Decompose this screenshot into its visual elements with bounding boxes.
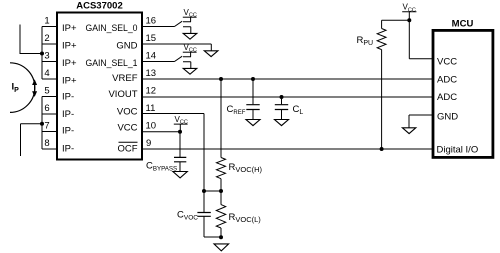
svg-text:ADC: ADC [437,75,457,86]
svg-text:4: 4 [44,68,49,79]
svg-text:ADC: ADC [437,92,457,103]
ground (C_REF) [246,120,260,126]
node VOC divider junction left [202,189,206,193]
switch SW2 upper contact [183,52,191,57]
svg-text:IP-: IP- [62,126,74,137]
wire pin 3 stub [42,61,57,63]
svg-text:9: 9 [146,138,151,149]
svg-text:RPU: RPU [357,35,374,47]
svg-text:12: 12 [146,86,157,97]
wire Vcc to RPU [382,20,410,28]
wire pin 2 stub [42,43,57,45]
wire pin 8 stub [42,148,57,150]
wire pin 6 stub [42,113,57,115]
svg-text:VREF: VREF [112,73,138,84]
svg-text:IP+: IP+ [62,58,77,69]
svg-text:7: 7 [44,121,49,132]
svg-text:CVOC: CVOC [177,210,198,222]
ground (C_L) [275,120,289,126]
svg-text:GAIN_SEL_0: GAIN_SEL_0 [86,23,138,33]
switch SW1 lower contact [183,27,191,33]
wire divider crossbar [204,190,221,192]
ground (MCU) [402,128,415,134]
ground (divider bottom) [214,244,229,251]
op-amp U1 ACS37002 IC body [57,13,142,160]
svg-text:RVOC(L): RVOC(L) [229,212,262,224]
capacitor C_L [275,97,288,119]
node VOC divider junction right [219,189,223,193]
resistor R_PU [377,29,386,150]
current direction arrow [32,79,37,97]
svg-text:Digital I/O: Digital I/O [437,145,479,156]
resistor R_VOC(H) [217,79,226,191]
svg-text:IP+: IP+ [62,76,77,87]
node VREF/RVOC junction [219,77,223,81]
wire pin 15 GND [142,44,211,51]
node VIOUT/CL junction [280,95,284,99]
svg-text:VCC: VCC [437,57,457,68]
power Vcc (pin10) [174,124,188,132]
switch SW1 lever [175,21,183,26]
ground (pin16 switch) [183,33,197,39]
wire external IP- lead [21,124,43,156]
svg-text:IP-: IP- [62,92,74,103]
node IP+ junction [40,52,44,56]
wire IP- bus (pins 5-8) [41,97,43,150]
node Vcc junction [407,18,411,22]
svg-text:3: 3 [44,51,49,62]
node divider bottom junction [219,235,223,239]
svg-text:ACS37002: ACS37002 [76,1,122,12]
svg-text:RVOC(H): RVOC(H) [229,162,263,174]
wire pin 14 GAIN_SEL_1 [142,61,175,63]
svg-text:14: 14 [146,51,157,62]
svg-text:16: 16 [146,16,157,27]
svg-text:VCC: VCC [117,123,137,134]
svg-text:11: 11 [146,103,156,114]
wire MCU GND [409,115,432,128]
svg-text:13: 13 [146,68,157,79]
wire VOC net (pin11) [142,114,204,192]
capacitor C_VOC [197,191,221,237]
svg-text:VOC: VOC [117,107,138,118]
wire pin 5 stub [42,96,57,98]
power Vcc (top right) [402,12,416,21]
wire OCF net (pin9 to MCU Digital I/O) [142,148,432,150]
svg-text:GAIN_SEL_1: GAIN_SEL_1 [86,58,138,68]
wire pin 1 stub [42,26,57,28]
svg-text:CREF: CREF [227,104,246,116]
svg-text:VIOUT: VIOUT [108,89,137,100]
svg-text:IP+: IP+ [62,41,77,52]
svg-text:CBYPASS: CBYPASS [146,161,177,173]
power Vcc bar (pin14) [183,51,197,53]
svg-text:IP-: IP- [62,109,74,120]
svg-text:GND: GND [437,112,458,123]
wire pin 4 stub [42,78,57,80]
current loop arc Ip [10,63,35,113]
resistor R_VOC(L) [216,191,225,237]
node OCF/RPU junction [380,147,384,151]
ground (pin15) [204,51,218,57]
svg-text:10: 10 [146,121,157,132]
svg-text:GND: GND [116,41,137,52]
wire VCC net (pin10) [142,131,180,133]
capacitor C_REF [246,79,259,119]
svg-text:IP: IP [12,82,20,95]
ground (C_BYPASS) [173,172,187,178]
svg-text:8: 8 [44,138,49,149]
svg-text:6: 6 [44,103,49,114]
switch SW2 lever [175,56,183,61]
svg-text:1: 1 [44,16,49,27]
node VREF/CREF junction [251,77,255,81]
svg-text:IP-: IP- [62,144,74,155]
wire VIOUT net (pin12 to MCU ADC) [142,96,432,98]
svg-text:2: 2 [44,33,49,44]
svg-text:OCF: OCF [117,144,137,155]
MCU box [433,30,493,157]
svg-text:CL: CL [293,104,304,116]
switch SW2 lower contact [183,62,191,68]
svg-text:MCU: MCU [452,19,474,30]
wire Vcc to MCU VCC [409,20,432,58]
node VCC junction [178,130,182,134]
wire pin 7 stub [42,131,57,133]
wire IP+ bus (pins 1-4) [41,27,43,80]
svg-text:5: 5 [44,86,49,97]
svg-text:15: 15 [146,33,157,44]
wire external IP+ lead [20,25,42,54]
switch SW1 upper contact [183,17,191,22]
capacitor C_BYPASS [174,132,186,172]
node IP- junction [40,122,44,126]
power Vcc bar (pin16) [183,16,197,18]
wire pin 16 GAIN_SEL_0 [142,26,175,28]
wire VREF net (pin13 to MCU ADC) [142,78,432,80]
svg-text:IP+: IP+ [62,23,77,34]
ground (pin14 switch) [183,68,197,74]
